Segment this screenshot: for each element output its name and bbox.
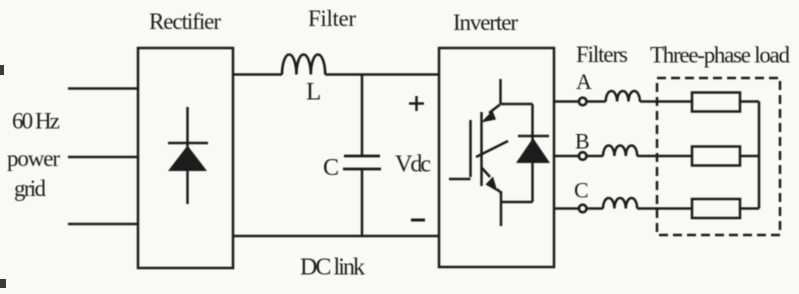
plus sign (Vdc +) bbox=[409, 102, 424, 105]
wire: node B to coil bbox=[587, 155, 603, 158]
resistor RB bbox=[692, 147, 740, 166]
transistor Q1 (IGBT) bbox=[449, 79, 533, 226]
svg-text:A: A bbox=[576, 69, 592, 94]
wire: coil B to resistor bbox=[637, 155, 692, 158]
svg-text:C: C bbox=[323, 155, 339, 181]
svg-text:Inverter: Inverter bbox=[453, 10, 518, 35]
wire: resistor B to bus bbox=[740, 155, 759, 158]
svg-text:Rectifier: Rectifier bbox=[149, 9, 221, 34]
capacitor C lead top bbox=[361, 75, 364, 156]
resistor RA bbox=[692, 93, 740, 112]
capacitor C lead bottom bbox=[361, 170, 364, 236]
svg-text:grid: grid bbox=[14, 176, 47, 201]
three-phase load box (dashed) bbox=[657, 78, 780, 235]
node B (circle) bbox=[579, 152, 587, 160]
inductor L bbox=[282, 54, 325, 74]
wire: DC- rail bbox=[233, 235, 439, 238]
svg-text:B: B bbox=[575, 129, 590, 154]
wire: DC+ rail (rectifier to inductor) bbox=[233, 73, 282, 76]
wire: phase B bbox=[554, 155, 579, 158]
wire: load common bus bbox=[758, 102, 761, 209]
diode D2 (freewheeling) bbox=[502, 104, 551, 202]
svg-text:60 Hz: 60 Hz bbox=[12, 109, 60, 134]
node C (circle) bbox=[579, 205, 587, 213]
capacitor C plates bbox=[343, 156, 381, 169]
svg-text:L: L bbox=[306, 79, 321, 106]
inverter block U2 bbox=[439, 48, 554, 267]
svg-text:Filter: Filter bbox=[308, 6, 356, 31]
inductor: filter coil A bbox=[606, 91, 640, 102]
svg-text:Vdc: Vdc bbox=[395, 152, 431, 178]
wire: grid phase 1 bbox=[68, 87, 138, 90]
svg-text:Filters: Filters bbox=[576, 42, 628, 67]
scan artifact: left edge mark upper bbox=[0, 65, 4, 75]
wire: DC+ rail (inductor to inverter) bbox=[325, 73, 439, 76]
wire: phase C bbox=[554, 207, 579, 210]
svg-text:C: C bbox=[574, 178, 589, 203]
wire: grid phase 3 bbox=[68, 223, 138, 226]
svg-text:DC link: DC link bbox=[300, 255, 365, 281]
resistor RC bbox=[692, 199, 740, 218]
node A (circle) bbox=[579, 98, 587, 106]
wire: node C to coil bbox=[587, 207, 603, 210]
scan artifact: left edge mark lower bbox=[0, 279, 6, 288]
rectifier block U1 bbox=[138, 48, 233, 268]
svg-text:power: power bbox=[7, 146, 60, 171]
wire: coil A to resistor bbox=[640, 100, 692, 103]
wire: coil C to resistor bbox=[637, 207, 692, 210]
wire: grid phase 2 bbox=[68, 156, 138, 159]
svg-text:Three-phase load: Three-phase load bbox=[650, 43, 791, 68]
minus sign (Vdc -) bbox=[411, 219, 425, 222]
wire: resistor A to bus bbox=[740, 100, 759, 103]
inductor: filter coil C bbox=[603, 198, 637, 209]
inductor: filter coil B bbox=[603, 145, 637, 156]
wire: resistor C to bus bbox=[740, 207, 759, 210]
wire: node A to coil bbox=[587, 100, 606, 103]
wire: phase A bbox=[554, 100, 579, 103]
diode D1 inside rectifier bbox=[168, 107, 208, 204]
